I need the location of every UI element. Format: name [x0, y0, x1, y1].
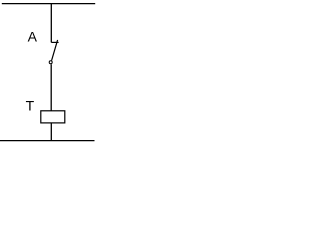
svg-text:A: A — [28, 29, 38, 45]
svg-text:T: T — [26, 98, 35, 114]
